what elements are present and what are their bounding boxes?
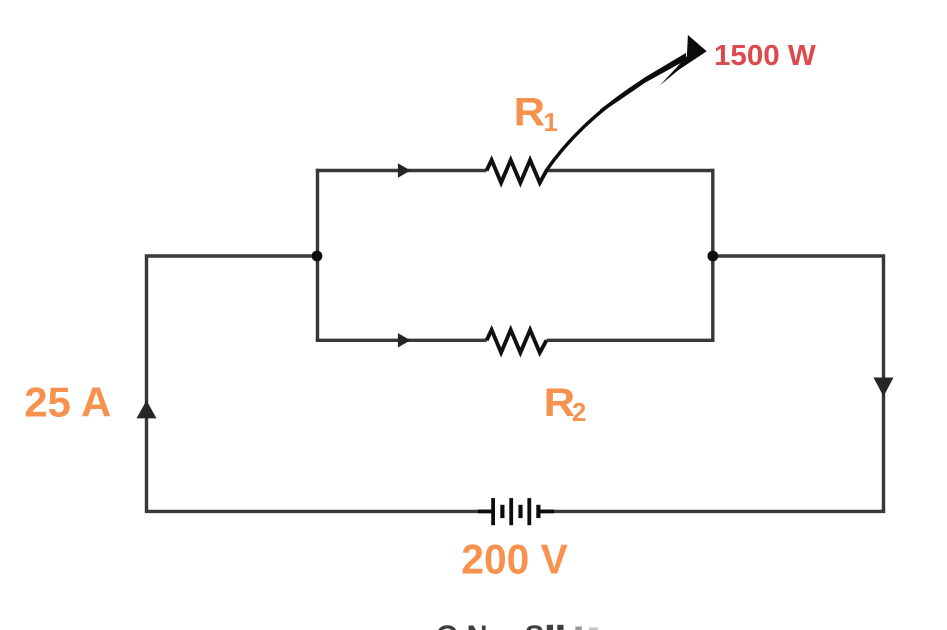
svg-text:25 A: 25 A <box>24 378 111 425</box>
svg-text:Q No: Q No <box>436 621 505 630</box>
svg-text:S: S <box>525 621 544 630</box>
svg-text:1: 1 <box>544 109 558 137</box>
svg-text:R: R <box>544 381 576 425</box>
svg-text:2: 2 <box>572 399 586 427</box>
svg-text:200 V: 200 V <box>461 536 568 583</box>
svg-text:R: R <box>514 91 546 135</box>
svg-text:1500 W: 1500 W <box>714 40 816 72</box>
